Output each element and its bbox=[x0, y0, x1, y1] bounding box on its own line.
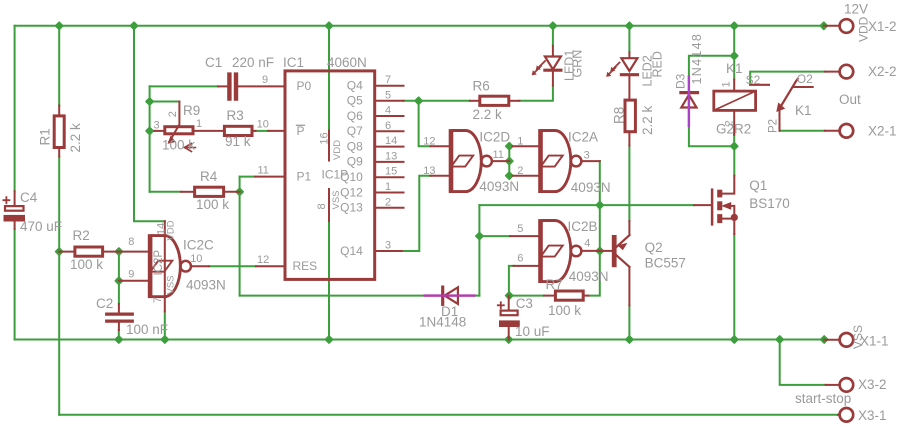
node rail C3 bbox=[505, 336, 512, 343]
svg-text:IC2P: IC2P bbox=[153, 250, 165, 276]
svg-text:Q12: Q12 bbox=[340, 185, 363, 199]
svg-text:1: 1 bbox=[385, 181, 391, 193]
resistor R4 bbox=[195, 187, 224, 196]
wire stub C1 right to IC1 pin9 bbox=[238, 85, 284, 87]
wire stub C3 bottom bbox=[508, 327, 510, 340]
svg-text:4093N: 4093N bbox=[479, 179, 519, 194]
svg-text:X2-2: X2-2 bbox=[868, 64, 897, 79]
wire gate net down to Q2 base node bbox=[599, 205, 601, 251]
svg-text:3: 3 bbox=[154, 120, 160, 132]
svg-text:O2: O2 bbox=[797, 72, 813, 86]
wire stub IC1 pin10 bbox=[268, 130, 283, 132]
svg-text:6: 6 bbox=[385, 120, 391, 132]
svg-text:9: 9 bbox=[128, 269, 134, 281]
svg-text:1N4148: 1N4148 bbox=[419, 315, 466, 330]
wire stub R8 bottom bbox=[628, 133, 630, 146]
node IC2D out a bbox=[506, 143, 513, 150]
capacitor C4 top plate bbox=[5, 206, 24, 211]
wire R1 top drop bbox=[58, 26, 60, 106]
wire R7 right up to Q2 base bbox=[588, 251, 600, 296]
wire osc node vertical bbox=[149, 86, 151, 191]
svg-text:Q7: Q7 bbox=[347, 124, 363, 138]
wire Q1 source to VSS bbox=[733, 234, 735, 340]
svg-text:S2: S2 bbox=[746, 73, 761, 87]
wire Q1 drain up to relay node bbox=[733, 146, 735, 175]
svg-text:D3: D3 bbox=[674, 73, 688, 89]
svg-text:P1: P1 bbox=[297, 169, 312, 183]
svg-text:1: 1 bbox=[721, 81, 733, 87]
node osc pin3 bbox=[146, 127, 153, 134]
pin Q5 stub bbox=[376, 100, 403, 102]
wire stub Q2 emitter top bbox=[628, 221, 630, 235]
svg-text:IC1: IC1 bbox=[283, 55, 304, 70]
svg-text:GRN: GRN bbox=[571, 50, 585, 78]
wire stub IC1 pin16 bbox=[328, 131, 330, 161]
svg-text:13: 13 bbox=[385, 150, 397, 162]
svg-text:6: 6 bbox=[517, 253, 523, 265]
wire Q2 collector to VSS bbox=[628, 306, 630, 340]
wire Q5 to IC2D pin12 bbox=[419, 101, 431, 146]
wire C4 to VSS rail bbox=[14, 229, 16, 340]
wire stub IC2C pin7 bbox=[164, 297, 166, 312]
wire stub IC2D out bbox=[492, 160, 510, 162]
svg-text:7: 7 bbox=[385, 74, 391, 86]
node osc wiper bbox=[146, 98, 153, 105]
trimmer R9 wiper bbox=[169, 102, 179, 142]
svg-text:R1: R1 bbox=[38, 128, 53, 145]
svg-text:100 k: 100 k bbox=[548, 303, 581, 318]
transistor Q2 BC557 bbox=[612, 235, 630, 267]
svg-text:BC557: BC557 bbox=[645, 256, 686, 271]
node top rail x59 bbox=[56, 22, 63, 29]
svg-text:VSS: VSS bbox=[331, 190, 342, 209]
svg-text:R8: R8 bbox=[612, 107, 627, 124]
node top rail IC1 VDD bbox=[325, 22, 332, 29]
wire stub R9 pin1 to R3 bbox=[194, 130, 223, 132]
svg-text:IC2C: IC2C bbox=[183, 238, 214, 253]
wire stub X3-2 bbox=[826, 384, 840, 386]
svg-text:C2: C2 bbox=[96, 296, 113, 311]
svg-text:5: 5 bbox=[385, 89, 391, 101]
node rail X1-1 bbox=[821, 336, 828, 343]
wire left VDD drop to C4 bbox=[14, 26, 16, 192]
svg-text:100 k: 100 k bbox=[196, 197, 229, 212]
wire IC1 pin8 VSS bbox=[328, 221, 330, 340]
diode D1 bbox=[425, 287, 475, 304]
trimmer R9 wiper arrowhead bbox=[168, 137, 175, 144]
wire stub R1 top bbox=[58, 106, 60, 115]
svg-text:K1: K1 bbox=[726, 61, 743, 76]
svg-text:R4: R4 bbox=[200, 169, 218, 184]
svg-text:11: 11 bbox=[258, 165, 269, 177]
svg-text:R7: R7 bbox=[546, 277, 563, 292]
svg-text:4093N: 4093N bbox=[571, 180, 611, 195]
wire VSS rail bbox=[15, 339, 825, 341]
svg-text:start-stop: start-stop bbox=[795, 391, 851, 406]
wire stub R7 left bbox=[544, 295, 554, 297]
wire start-stop bottom run bbox=[59, 414, 838, 416]
wire Q5 row to R6 bbox=[404, 100, 471, 102]
led LED2 bbox=[607, 58, 638, 76]
pin Q10 stub bbox=[376, 176, 403, 178]
wire stub relay coil bottom bbox=[733, 112, 735, 135]
svg-text:R9: R9 bbox=[183, 103, 200, 118]
resistor R3 bbox=[224, 126, 252, 135]
wire stub X1-1 bbox=[824, 339, 839, 341]
svg-text:X1-2: X1-2 bbox=[868, 19, 897, 34]
node IC2D out b bbox=[506, 158, 513, 165]
svg-text:7: 7 bbox=[152, 297, 164, 303]
svg-text:IC2B: IC2B bbox=[568, 219, 598, 234]
node R4 right bbox=[236, 188, 243, 195]
wire R1 bottom / start-stop vertical bbox=[58, 157, 60, 415]
svg-text:P: P bbox=[297, 124, 305, 138]
svg-text:4: 4 bbox=[584, 238, 590, 250]
svg-text:Q2: Q2 bbox=[645, 240, 663, 255]
node Q2 base bbox=[596, 247, 603, 254]
wire stub relay coil top bbox=[733, 80, 735, 90]
pin Q4 stub bbox=[376, 85, 403, 87]
wire osc node to C1 bbox=[150, 85, 218, 87]
wire stub LED2 to R8 bbox=[628, 77, 630, 99]
wire stub R3 right to IC1 pin10 bbox=[253, 130, 255, 132]
svg-text:C4: C4 bbox=[20, 190, 38, 205]
wire stub IC2B pin6 bbox=[514, 265, 539, 267]
svg-text:R6: R6 bbox=[473, 79, 490, 94]
relay K1 coil bbox=[714, 91, 756, 110]
capacitor C3 top plate bbox=[501, 311, 518, 316]
wire D1 right to gate-net corner bbox=[474, 295, 479, 297]
wire stub Q1 gate bbox=[694, 204, 711, 206]
svg-text:2: 2 bbox=[724, 120, 736, 126]
svg-text:VSS: VSS bbox=[851, 325, 865, 349]
node R2 left bbox=[56, 248, 63, 255]
svg-text:RED: RED bbox=[651, 51, 665, 77]
wire stub R6 left bbox=[470, 100, 478, 102]
wire stub X1-2 bbox=[824, 25, 839, 27]
wire stub IC2B pin5 bbox=[510, 235, 538, 237]
svg-text:VDD: VDD bbox=[166, 220, 177, 240]
node rail IC2C pin7 bbox=[161, 336, 168, 343]
node pin9 C2 bbox=[115, 277, 122, 284]
wire VDD to relay coil bbox=[733, 26, 735, 80]
svg-text:1: 1 bbox=[196, 118, 202, 130]
diode D3 bbox=[681, 77, 698, 126]
resistor R1 bbox=[54, 116, 64, 148]
connector X2-1 bbox=[840, 124, 854, 138]
nand gate IC2C body bbox=[148, 234, 191, 298]
svg-text:12V: 12V bbox=[844, 2, 868, 17]
svg-text:X3-2: X3-2 bbox=[858, 377, 887, 392]
wire VDD drop x134 to IC2C pin14 bbox=[134, 26, 165, 221]
wire stub C2 bottom bbox=[118, 323, 120, 330]
wire VSS to X3-2 branch bbox=[780, 340, 826, 385]
nand gate IC2B body bbox=[538, 219, 581, 283]
svg-text:X2-1: X2-1 bbox=[868, 124, 897, 139]
svg-text:4: 4 bbox=[385, 105, 391, 117]
wire P2 to X2-1 bbox=[780, 130, 825, 132]
wire IC2C output to IC1 RES bbox=[209, 265, 256, 267]
svg-text:5: 5 bbox=[517, 223, 523, 235]
wire Q14 to IC2D pin13 bbox=[402, 176, 431, 251]
svg-text:91 k: 91 k bbox=[225, 134, 251, 149]
wire stub C4 bottom bbox=[14, 221, 16, 229]
nand gate IC2A body bbox=[538, 129, 581, 193]
wire stub R4 right bbox=[225, 191, 240, 193]
svg-text:8: 8 bbox=[128, 236, 134, 248]
svg-text:VDD: VDD bbox=[332, 140, 343, 160]
node rail IC1 VSS bbox=[325, 336, 332, 343]
wire IC2C input column bbox=[118, 252, 120, 304]
IC1 right pin stubs bbox=[376, 86, 403, 251]
wire stub C1 left bbox=[218, 85, 227, 87]
svg-text:4060N: 4060N bbox=[327, 55, 367, 70]
IC1 4060N box bbox=[285, 71, 375, 280]
capacitor C3 bottom plate bbox=[500, 321, 520, 327]
wire stub IC2C out bbox=[191, 265, 209, 267]
wire stub R6 right bbox=[510, 100, 519, 102]
capacitor C1 plates bbox=[229, 75, 236, 99]
svg-text:4093N: 4093N bbox=[186, 278, 226, 293]
pin Q9 stub bbox=[376, 161, 403, 163]
svg-text:P2: P2 bbox=[768, 119, 780, 133]
node top rail x134 bbox=[130, 22, 137, 29]
node Q5 row bbox=[415, 97, 422, 104]
node top rail X1-2 bbox=[820, 22, 827, 29]
resistor R7 bbox=[555, 291, 583, 300]
resistor R8 bbox=[625, 100, 635, 132]
svg-text:100 k: 100 k bbox=[162, 138, 195, 153]
svg-text:IC2A: IC2A bbox=[568, 130, 598, 145]
wire D1 left run bbox=[240, 295, 425, 297]
wire LED1 top bbox=[552, 26, 554, 46]
svg-text:R2: R2 bbox=[73, 228, 90, 243]
wire IC2D out to IC2A inputs bbox=[508, 146, 510, 176]
pin Q12 stub bbox=[376, 192, 403, 194]
svg-text:IC2D: IC2D bbox=[479, 130, 510, 145]
svg-text:Q13: Q13 bbox=[340, 201, 363, 215]
svg-text:Out: Out bbox=[839, 92, 861, 107]
svg-text:VDD: VDD bbox=[857, 16, 871, 42]
wire stub Q2 base bbox=[600, 250, 612, 252]
node top rail LED1 bbox=[549, 22, 556, 29]
wire stub C3 top bbox=[508, 296, 510, 310]
svg-text:Q14: Q14 bbox=[340, 244, 363, 258]
svg-text:11: 11 bbox=[493, 149, 504, 161]
wire stub R1 bottom bbox=[58, 149, 60, 157]
wire S2 to X2-2 bbox=[750, 72, 825, 84]
wire stub IC1 pin11 bbox=[255, 176, 283, 178]
nand gate IC2D body bbox=[449, 129, 492, 193]
svg-text:X3-1: X3-1 bbox=[858, 408, 887, 423]
node rail C2 bbox=[115, 336, 122, 343]
svg-text:RES: RES bbox=[293, 259, 318, 273]
wire stub IC1 pin12 RES bbox=[256, 265, 284, 267]
wire IC1 pin16 VDD bbox=[328, 26, 330, 131]
node top rail LED2 bbox=[626, 22, 633, 29]
svg-text:10: 10 bbox=[257, 119, 269, 131]
wire stub R2 right / IC2C pin8 bbox=[104, 251, 148, 253]
svg-text:14: 14 bbox=[385, 135, 397, 147]
wire stub IC2D pin13 bbox=[431, 175, 449, 177]
capacitor C4 plus bbox=[3, 197, 9, 203]
svg-text:2.2 k: 2.2 k bbox=[68, 123, 83, 153]
svg-text:2: 2 bbox=[517, 165, 523, 177]
svg-text:12: 12 bbox=[257, 254, 269, 266]
wire gate drive run y205 bbox=[479, 204, 694, 206]
svg-text:12: 12 bbox=[423, 136, 435, 148]
capacitor C2 plates bbox=[107, 314, 133, 321]
wire IC2B pin5 bbox=[479, 235, 510, 237]
svg-text:15: 15 bbox=[385, 166, 397, 178]
wire VDD top rail bbox=[15, 25, 824, 27]
IC2C power pin line bbox=[164, 236, 166, 297]
svg-text:2: 2 bbox=[167, 111, 179, 117]
node IC2D out c bbox=[506, 172, 513, 179]
transistor Q1 BS170 bbox=[712, 176, 738, 234]
node IC2A out gate-net bbox=[596, 202, 603, 209]
svg-text:2.2 k: 2.2 k bbox=[473, 107, 503, 122]
svg-text:8: 8 bbox=[316, 203, 328, 209]
connector X3-2 bbox=[840, 378, 854, 392]
wire stub IC2D pin12 bbox=[431, 145, 449, 147]
capacitor C4 bottom plate bbox=[4, 215, 25, 221]
wire R4 right node vertical bbox=[239, 177, 241, 296]
svg-text:100 nF: 100 nF bbox=[126, 322, 168, 337]
svg-text:R3: R3 bbox=[227, 108, 244, 123]
svg-text:2: 2 bbox=[385, 196, 391, 208]
svg-text:Q1: Q1 bbox=[749, 178, 767, 193]
svg-text:100 k: 100 k bbox=[70, 257, 103, 272]
pin Q13 stub bbox=[376, 207, 403, 209]
svg-text:1: 1 bbox=[517, 136, 523, 148]
wire stub IC2A pin1 bbox=[513, 145, 539, 147]
node R2 right pin8 bbox=[115, 248, 122, 255]
trimmer R9 adjust arrow bbox=[185, 144, 196, 152]
svg-text:Q8: Q8 bbox=[347, 139, 363, 153]
svg-text:Q6: Q6 bbox=[347, 109, 363, 123]
wire overlap on D3 bbox=[688, 77, 690, 127]
svg-text:Q9: Q9 bbox=[347, 155, 363, 169]
wire R6 to LED1 bbox=[519, 86, 553, 101]
node rail X3-2 branch bbox=[776, 336, 783, 343]
svg-text:3: 3 bbox=[584, 150, 590, 162]
svg-text:3: 3 bbox=[385, 240, 391, 252]
wire stub IC2A pin2 bbox=[513, 175, 539, 177]
node relay top bbox=[731, 52, 738, 59]
wire C2 bottom to VSS bbox=[118, 330, 120, 340]
svg-text:470 uF: 470 uF bbox=[20, 219, 62, 234]
wire stub IC2B out bbox=[581, 250, 600, 252]
svg-text:1N4148: 1N4148 bbox=[690, 33, 704, 85]
svg-text:4093N: 4093N bbox=[569, 269, 609, 284]
wire stub LED1 bottom bbox=[552, 72, 554, 86]
svg-text:Q5: Q5 bbox=[347, 94, 363, 108]
node top rail relay bbox=[731, 22, 738, 29]
svg-text:K1: K1 bbox=[795, 103, 812, 118]
svg-text:C3: C3 bbox=[516, 296, 533, 311]
pin Q8 stub bbox=[376, 146, 403, 148]
wire coil bottom to drain node bbox=[733, 135, 735, 146]
node rail Q1 source bbox=[731, 336, 738, 343]
wire osc node to R9 wiper bbox=[150, 101, 180, 103]
svg-text:9: 9 bbox=[262, 74, 268, 86]
pin Q14 stub bbox=[376, 250, 402, 252]
wire D3 bottom to coil node bbox=[689, 126, 734, 146]
trimmer R9 body bbox=[165, 127, 193, 134]
wire LED2 top bbox=[628, 26, 630, 52]
wire R8 bottom to Q2 emitter bbox=[628, 146, 630, 221]
wire stub X2-1 bbox=[825, 130, 839, 132]
node gate-net pin5 bbox=[476, 233, 483, 240]
svg-text:VSS: VSS bbox=[166, 275, 177, 294]
wire overlap on D1 bbox=[425, 294, 475, 296]
resistor R2 bbox=[75, 247, 103, 256]
connector X3-1 bbox=[840, 408, 854, 422]
wire stub IC2C pin14 bbox=[164, 221, 166, 236]
wire stub X2-2 bbox=[825, 71, 839, 73]
svg-text:16: 16 bbox=[319, 132, 331, 144]
svg-text:10: 10 bbox=[190, 253, 202, 265]
svg-text:Q4: Q4 bbox=[347, 79, 363, 93]
wire stub R7 right bbox=[585, 295, 589, 297]
connector X1-2 bbox=[840, 19, 854, 33]
wire osc node to R9 pin3 bbox=[150, 130, 155, 132]
wire stub C4 top bbox=[14, 191, 16, 205]
wire stub LED1 top bbox=[552, 46, 554, 57]
wire stub IC2C pin9 bbox=[119, 280, 148, 282]
wire stub IC1 pin8 bbox=[328, 189, 330, 221]
connector X1-1 bbox=[840, 333, 854, 347]
led LED1 bbox=[532, 57, 561, 75]
svg-text:2.2 k: 2.2 k bbox=[640, 105, 655, 135]
wire stub C2 top bbox=[118, 304, 120, 313]
wire stub IC2A out bbox=[581, 160, 600, 162]
wire IC2A output down to gate net bbox=[599, 161, 601, 205]
wire IC2C pin7 to VSS rail bbox=[164, 312, 166, 340]
svg-text:P0: P0 bbox=[297, 79, 312, 93]
wire node to R7 left bbox=[509, 295, 544, 297]
wire osc node to R4 bbox=[150, 191, 181, 193]
connector X2-2 bbox=[840, 65, 854, 79]
svg-text:BS170: BS170 bbox=[749, 196, 790, 211]
wire stub X3-1 bbox=[838, 414, 840, 416]
svg-text:220 nF: 220 nF bbox=[232, 55, 274, 70]
wire stub Q2 collector bottom bbox=[628, 267, 630, 305]
pin Q6 stub bbox=[376, 115, 403, 117]
svg-text:13: 13 bbox=[423, 165, 435, 177]
node rail Q2 collector bbox=[626, 336, 633, 343]
wire stub LED2 top bbox=[628, 52, 630, 57]
node coil bottom drain bbox=[731, 143, 738, 150]
wire gate-net vertical bbox=[478, 205, 480, 296]
svg-text:10 uF: 10 uF bbox=[515, 324, 550, 339]
relay K1 contact bbox=[750, 79, 813, 131]
wire relay top node to D3 bbox=[689, 56, 734, 77]
svg-text:IC1P: IC1P bbox=[322, 168, 349, 182]
pin Q7 stub bbox=[376, 130, 403, 132]
wire stub R4 left bbox=[181, 191, 193, 193]
wire stub R9 pin3 bbox=[155, 130, 164, 132]
node D1 C3 R7 bbox=[506, 292, 513, 299]
wire IC2B pin6 vertical bbox=[509, 266, 514, 296]
wire R4 node to IC1 pin11 bbox=[240, 176, 256, 178]
wire R3 to IC1 pin10 bbox=[256, 130, 269, 132]
wire stub R2 left bbox=[59, 251, 73, 253]
svg-text:C1: C1 bbox=[205, 55, 222, 70]
resistor R6 bbox=[480, 96, 509, 105]
capacitor C3 plus bbox=[498, 302, 504, 308]
